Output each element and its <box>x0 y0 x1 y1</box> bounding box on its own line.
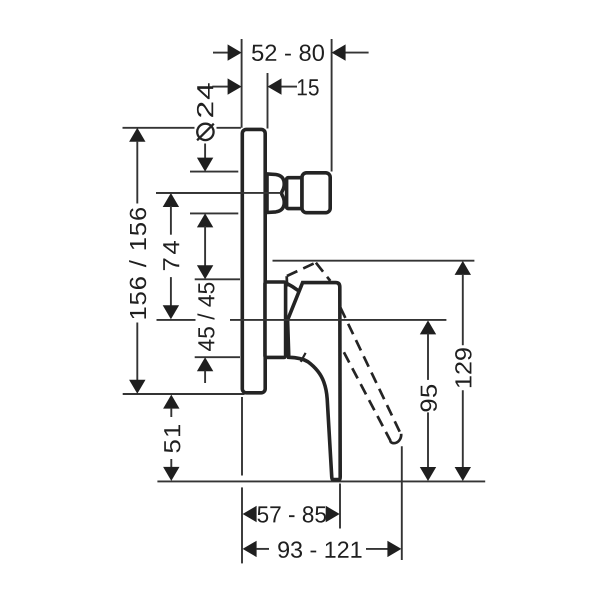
extension line plate bottom (y=394) <box>123 393 245 395</box>
arrow 95 bottom (points down) <box>420 467 436 481</box>
small tick on handle underside <box>301 353 306 362</box>
dimension 129 upper segment <box>462 274 464 345</box>
cone escutcheon of top stub <box>267 174 284 213</box>
arrow 129 bottom (points down) <box>455 467 471 481</box>
dimension 15 right tail <box>281 86 297 88</box>
arrow Ø24 top (points down) <box>197 158 213 172</box>
label 95 (rotated) <box>420 385 437 412</box>
dimension 93-121 left tail <box>256 548 269 550</box>
dimension 51 upper tail <box>170 408 172 417</box>
extension line plate front face (x=267.5) <box>267 73 269 129</box>
arrow 129 top (points up) <box>455 261 471 275</box>
dimension 15 left tail <box>212 86 228 88</box>
label 45 / 45 (rotated) <box>197 283 214 351</box>
dimension Ø24 line below symbol <box>204 144 206 160</box>
dimension 52-80 left tail <box>213 52 228 54</box>
extension line plate top (y=127.8) left part <box>123 127 195 129</box>
extension line handle bottom (y=481.4) <box>157 480 485 482</box>
label 74 (rotated) <box>163 241 179 270</box>
dashed blade lower edge <box>344 352 391 441</box>
small cylinder of top stub <box>287 178 302 209</box>
label 52-80 <box>252 45 324 62</box>
valve centerline left segment (y=319.9) <box>157 319 196 321</box>
diameter symbol circle <box>197 124 213 140</box>
dimension 45/45 bottom tail <box>204 371 206 384</box>
valve sleeve <box>265 282 286 357</box>
arrow 51 top (points up) <box>163 395 179 409</box>
centerline top stub overlay (y=192.9) <box>156 192 281 194</box>
arrow 93-121 left (points left) <box>243 541 257 557</box>
arrow 45/45 top (points down) <box>197 265 213 279</box>
extension line plate top (y=127.8) right part <box>217 127 241 129</box>
arrow Ø24 bottom (points up) <box>197 213 213 227</box>
extension line dashed-handle tip (x=401.8) <box>401 446 403 560</box>
extension line blade front lower (x=340) <box>339 484 341 529</box>
label 51 (rotated) <box>164 425 180 453</box>
dashed handle neck left short dash <box>285 276 288 286</box>
extension line sleeve top (y=279.3) <box>195 278 240 280</box>
dimension 95 lower segment <box>427 412 429 468</box>
extension line left vertical (wall face, x=241.6) <box>241 39 243 128</box>
extension line knob end (x=331.6) <box>331 39 333 172</box>
dimension line between Ø24 and 45/45 <box>204 226 206 266</box>
arrow 15 left (points right) <box>228 78 242 94</box>
label 129 (rotated) <box>455 348 472 387</box>
arrow 95 top (points up) <box>420 320 436 334</box>
arrow 51 bottom (points down) <box>163 467 179 481</box>
arrow 156/156 top (points up) <box>129 128 145 142</box>
dimension 51 lower tail <box>170 459 172 468</box>
extension line knob bottom Ø24 (y=213.4) <box>190 212 238 214</box>
dimension 156/156 upper segment <box>136 141 138 204</box>
label 156 / 156 (rotated) <box>129 208 146 319</box>
diameter symbol slash <box>197 124 214 141</box>
dimension 93-121 right tail <box>366 548 388 550</box>
dashed handle neck edge (up-right) <box>287 263 315 276</box>
arrow 74 top (points up) <box>163 193 179 207</box>
arrow 52-80 right (points left) <box>332 44 346 60</box>
handle neck wedge top edge <box>286 283 298 290</box>
arrow 74 bottom (points down) <box>163 305 179 319</box>
end knob of top stub <box>302 173 330 213</box>
arrow 156/156 bottom (points down) <box>129 380 145 394</box>
extension line knob top Ø24 (y=171.6) <box>190 171 238 173</box>
arrow 57-85 left (points left) <box>243 506 257 522</box>
dimension 156/156 lower segment <box>136 323 138 382</box>
label 57 - 85 <box>257 506 326 523</box>
dimension 52-80 right tail <box>345 52 368 54</box>
arrow 57-85 right (points right) <box>326 506 340 522</box>
arrow 52-80 left (points right) <box>228 44 242 60</box>
dimension 74 lower segment <box>170 277 172 306</box>
wall plate (escutcheon) <box>242 129 265 392</box>
dashed blade tip <box>390 434 401 443</box>
centerline top stub (y=192.9) <box>156 192 281 194</box>
arrow 15 right (points left) <box>268 78 282 94</box>
valve centerline main segment (y=319.9) <box>230 319 446 321</box>
dashed handle top edge (down-right) <box>316 263 330 281</box>
label 15 <box>298 79 319 95</box>
arrow 93-121 right (points right) <box>387 541 401 557</box>
label 93 - 121 <box>278 541 361 558</box>
extension line sleeve bottom (y=357.2) <box>195 356 240 358</box>
dimension 129 lower segment <box>462 390 464 468</box>
dimension 95 upper segment <box>427 333 429 380</box>
extension line dashed-handle top (y=260.7) <box>273 260 475 262</box>
extension line wall face lower, upper segment (x=242) <box>241 397 243 476</box>
dimension 74 upper segment <box>170 206 172 235</box>
dashed blade upper edge <box>340 308 401 435</box>
lever handle (solid, down position) <box>288 283 341 480</box>
label 24 (rotated) <box>197 83 213 117</box>
extension line wall face lower, lower segment (x=242) <box>241 487 243 563</box>
arrow 45/45 bottom (points up) <box>197 357 213 371</box>
